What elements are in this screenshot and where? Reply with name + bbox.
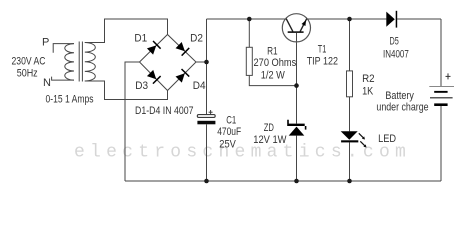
svg-text:0-15 1 Amps: 0-15 1 Amps bbox=[46, 94, 94, 106]
svg-text:P: P bbox=[42, 37, 49, 49]
svg-text:R2: R2 bbox=[362, 73, 375, 85]
svg-text:1/2 W: 1/2 W bbox=[261, 70, 286, 82]
svg-text:TIP 122: TIP 122 bbox=[307, 56, 338, 68]
svg-text:D4: D4 bbox=[193, 80, 206, 92]
svg-text:R1: R1 bbox=[267, 45, 278, 57]
svg-text:12V 1W: 12V 1W bbox=[253, 134, 287, 146]
svg-text:D1: D1 bbox=[134, 33, 147, 45]
svg-text:T1: T1 bbox=[318, 43, 327, 55]
svg-text:C1: C1 bbox=[226, 115, 236, 127]
svg-text:ZD: ZD bbox=[264, 122, 274, 134]
svg-text:under charge: under charge bbox=[376, 101, 428, 113]
svg-text:230V AC: 230V AC bbox=[12, 56, 46, 68]
svg-text:1K: 1K bbox=[362, 85, 374, 97]
svg-text:D2: D2 bbox=[190, 32, 203, 44]
svg-text:IN4007: IN4007 bbox=[383, 49, 409, 61]
svg-text:470uF: 470uF bbox=[217, 126, 241, 138]
svg-text:LED: LED bbox=[378, 133, 396, 145]
svg-text:Battery: Battery bbox=[385, 90, 414, 102]
svg-text:50Hz: 50Hz bbox=[17, 67, 38, 79]
svg-text:D5: D5 bbox=[390, 35, 399, 47]
svg-text:25V: 25V bbox=[219, 139, 236, 151]
svg-text:D3: D3 bbox=[135, 80, 148, 92]
svg-text:270 Ohms: 270 Ohms bbox=[254, 57, 297, 69]
svg-text:N: N bbox=[43, 77, 51, 89]
svg-text:D1-D4 IN 4007: D1-D4 IN 4007 bbox=[135, 105, 194, 117]
